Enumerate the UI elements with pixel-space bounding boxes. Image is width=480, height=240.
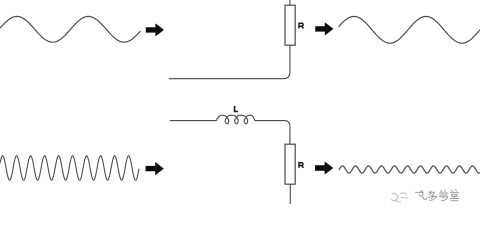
resistor R (bottom circuit) [285,144,295,184]
wire (bottom lead of bottom resistor) [289,184,291,204]
signal-flow arrow (bottom left) [146,162,164,175]
wire (top lead above resistor R, top circuit) [289,0,291,5]
wire (bottom lead of top resistor, L-bend to the left) [169,45,290,78]
resistor R (top circuit) [285,5,295,45]
wire (inductor to resistor R, corner bend down) [255,121,290,145]
watermark logo [391,193,408,202]
input high-frequency sine waveform [0,156,139,181]
inductor L (coil) [217,115,255,124]
watermark text (brand characters) [416,190,459,201]
output high-frequency sine waveform (attenuated) [339,166,480,173]
signal-flow arrow (bottom middle) [315,161,333,174]
label R (bottom resistor reference label) [299,162,304,168]
input low-frequency sine waveform [0,16,141,42]
label R (top resistor reference label) [299,23,304,29]
output low-frequency sine waveform (unattenuated) [339,16,480,43]
wire (left lead into inductor L) [170,120,217,122]
label L (inductor reference label) [235,106,238,112]
signal-flow arrow (top right) [315,22,333,35]
signal-flow arrow (top left) [146,23,164,36]
